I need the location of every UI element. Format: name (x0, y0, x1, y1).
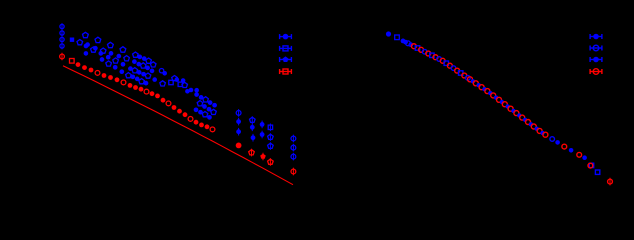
right panel: red-dominant chain (middle section) (468, 77, 548, 137)
left legend entry 3: blue filled pentagon (280, 56, 292, 62)
right panel: red open circle on last cluster (588, 163, 593, 168)
left panel: blue sparse cluster column x=238.6 (236, 109, 241, 135)
right legend entry 1: blue filled circle (590, 34, 602, 40)
left legend entry 4: red open square (280, 69, 292, 74)
left panel: blue sparse cluster column x=262 (260, 121, 265, 139)
right legend entry 3: blue filled circle (590, 57, 602, 63)
right panel: terminal red open circle outlier (608, 178, 613, 186)
left panel: band-head red open circle with error bar (60, 53, 65, 61)
left panel: blue open circles column x=293.4 (291, 135, 296, 161)
right panel: leading blue states (386, 31, 413, 47)
left panel: scattered blue states between bands (84, 51, 199, 93)
right legend entry 4: red open circle (590, 69, 602, 75)
left panel: band-head column blue open circles with error bars (60, 23, 64, 49)
left panel: red reference line (63, 66, 293, 185)
left panel: blue band chain 4 (100, 57, 149, 85)
right panel: alternating red/blue chain (first section) (411, 44, 470, 80)
left legend entry 1: blue filled circle (280, 34, 292, 40)
left panel: blue band chain 3 (84, 44, 212, 120)
left panel: blue sparse cluster column x=270.4 (268, 124, 274, 150)
left panel: red sparse high-spin markers (236, 143, 296, 176)
left panel: blue sparse cluster column x=252.3 (250, 116, 256, 141)
left panel: blue band chain 1 (open pentagons) (83, 32, 217, 107)
left panel: red band chain (70, 59, 215, 132)
right legend entry 2: blue open circle (590, 45, 602, 51)
left legend entry 2: blue open square (280, 46, 292, 51)
right panel: blue-dominant chain (last section) (550, 137, 600, 175)
left panel: blue band chain 2 (70, 38, 217, 115)
